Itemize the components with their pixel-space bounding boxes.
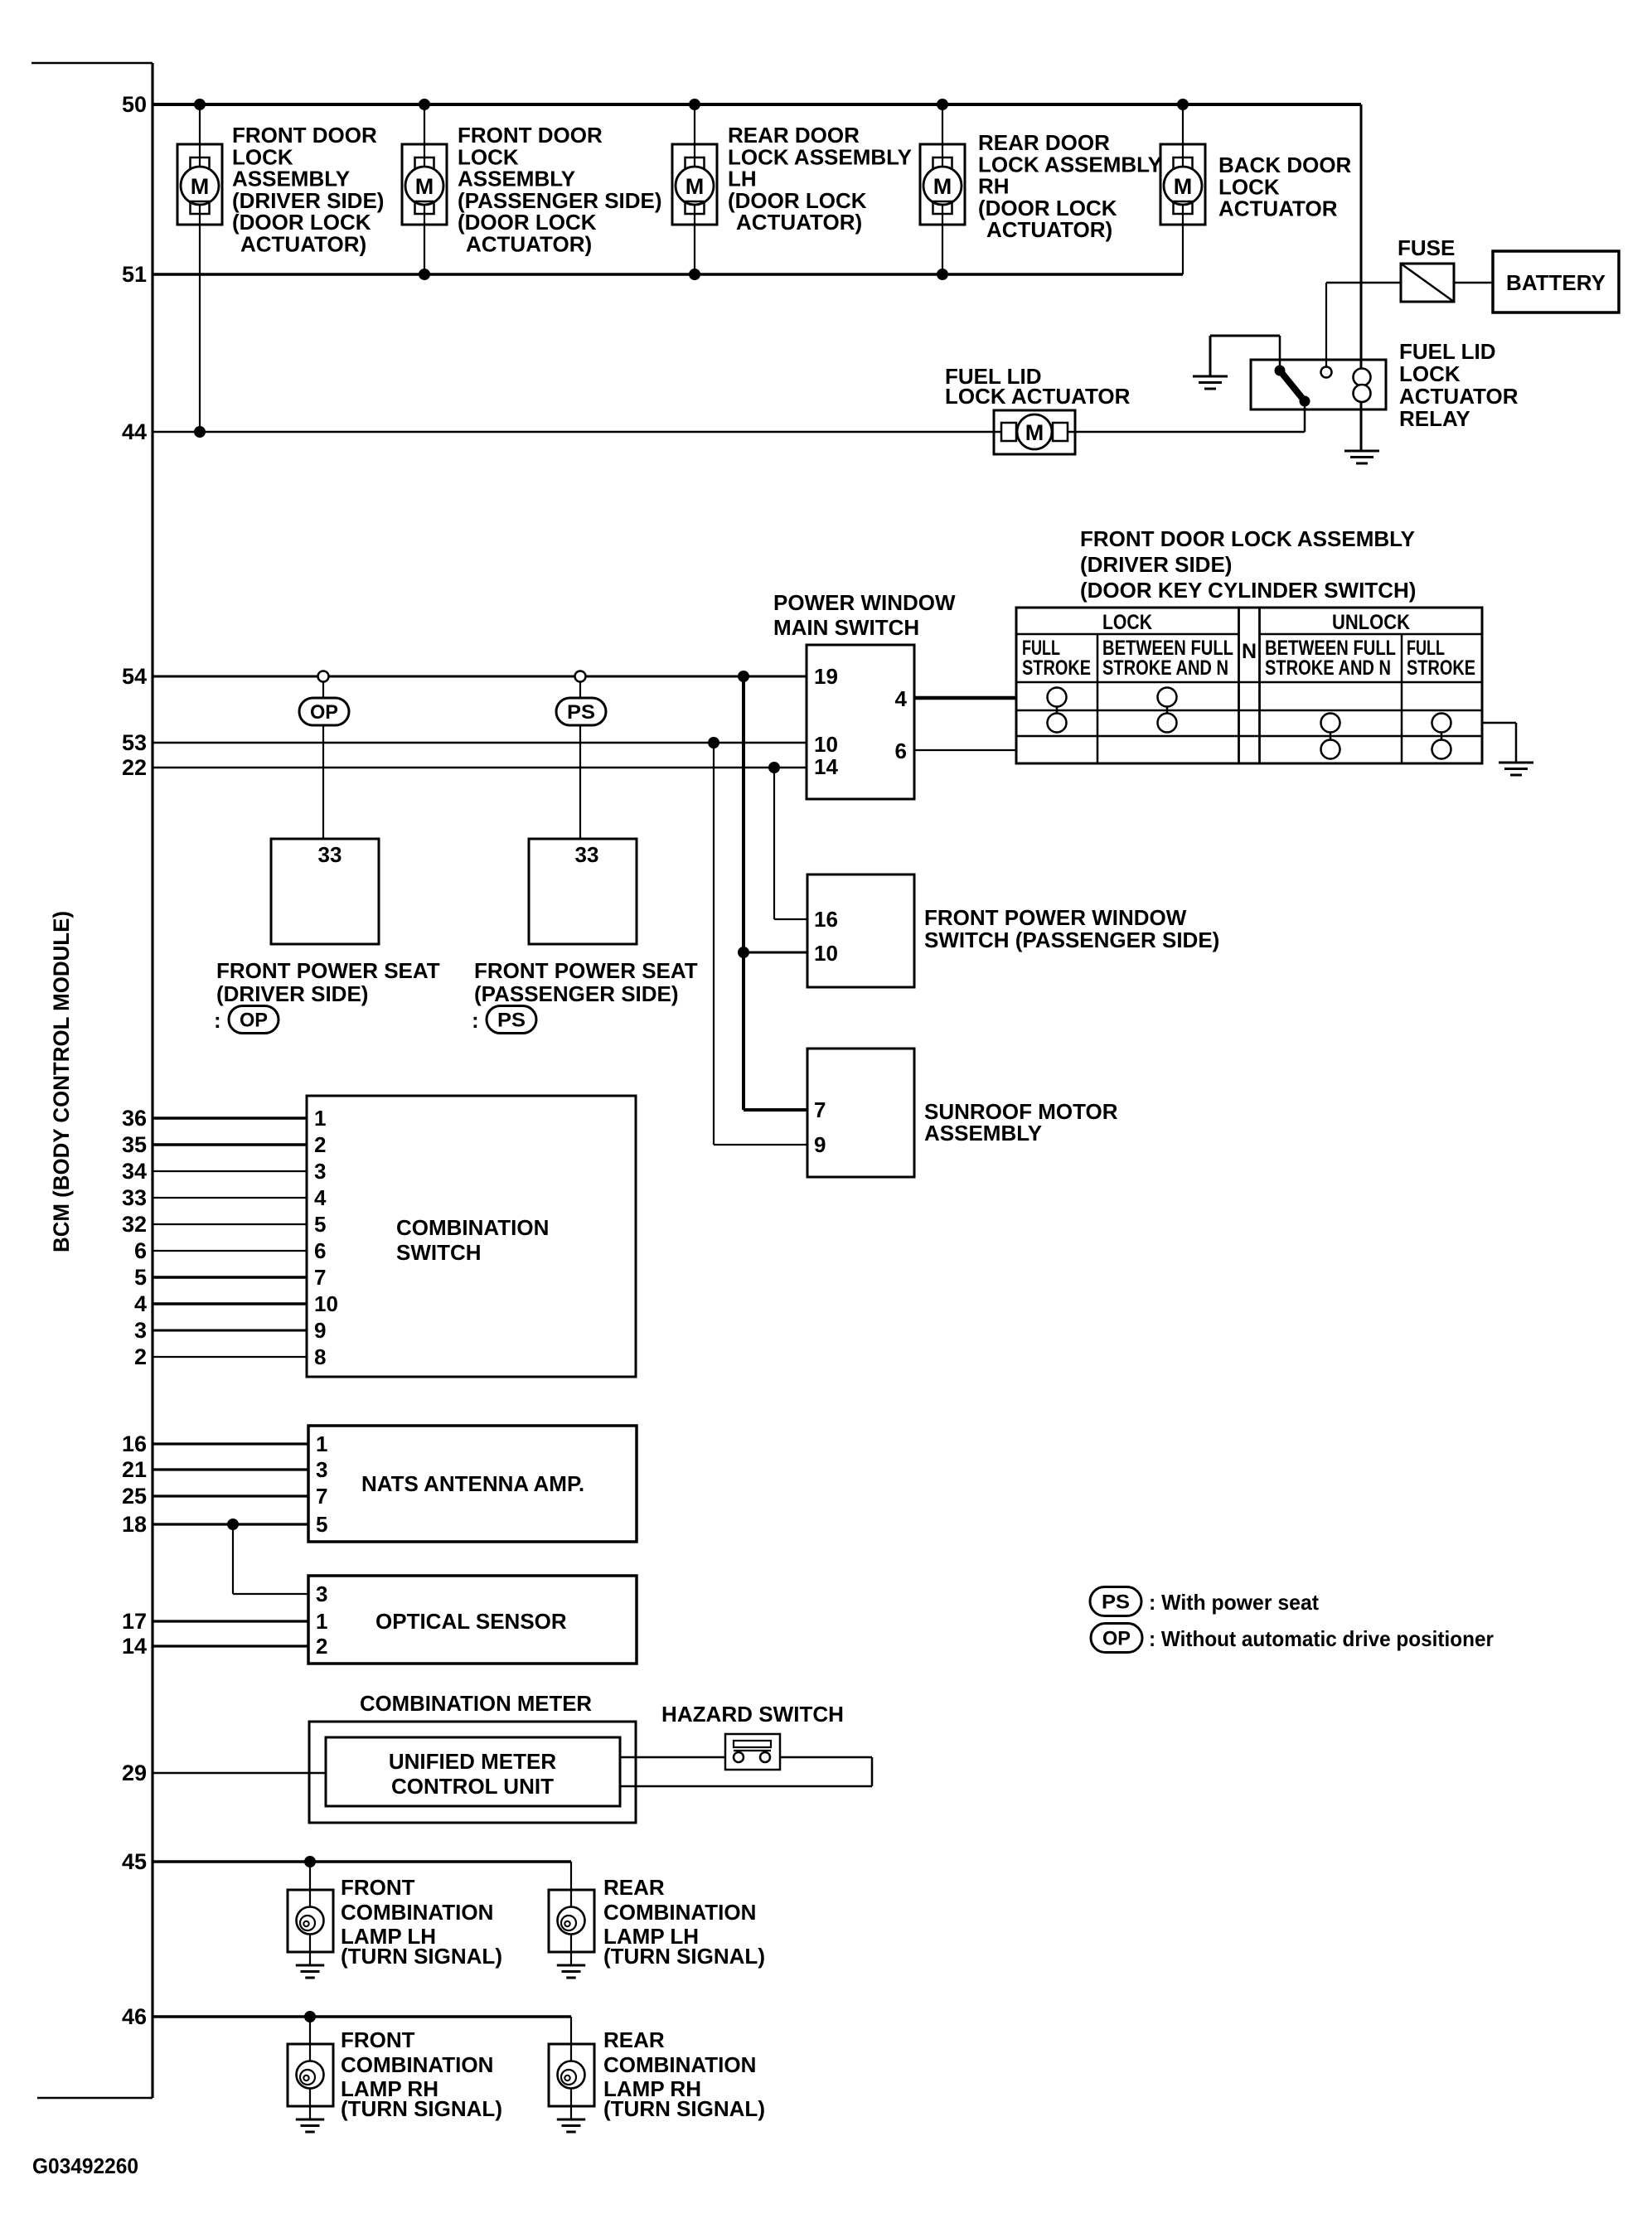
svg-text:COMBINATION: COMBINATION [603, 2052, 756, 2077]
BCM pin 32 label [122, 1212, 147, 1237]
svg-text:BCM (BODY CONTROL MODULE): BCM (BODY CONTROL MODULE) [49, 911, 74, 1252]
optical pin 3 label [316, 1582, 327, 1606]
svg-text:FRONT: FRONT [341, 1875, 415, 1900]
svg-text:OP: OP [1102, 1628, 1131, 1650]
svg-text:(DRIVER SIDE): (DRIVER SIDE) [216, 981, 368, 1006]
svg-text:9: 9 [314, 1318, 326, 1343]
svg-text:ACTUATOR): ACTUATOR) [986, 217, 1112, 242]
table header unlock full stroke [1407, 637, 1475, 680]
svg-text:SWITCH: SWITCH [396, 1240, 482, 1265]
wire net 45 [153, 1860, 571, 1863]
wire BCM 14 to optical sensor pin 2 [153, 1644, 308, 1647]
label sunroof motor assembly [924, 1099, 1118, 1146]
BCM pin 46 label [122, 2004, 147, 2029]
svg-text:6: 6 [314, 1238, 326, 1263]
wire rear door lock actuator LH drop [694, 104, 695, 274]
svg-text:46: 46 [122, 2004, 147, 2029]
svg-text:ACTUATOR): ACTUATOR) [736, 210, 862, 235]
wire BCM 3 to combination switch pin 9 [153, 1330, 307, 1332]
svg-text:17: 17 [122, 1609, 147, 1634]
BCM pin 53 label [122, 730, 147, 755]
wire battery trunk [1360, 104, 1363, 450]
bulb rear combination lamp LH [549, 1890, 594, 1964]
label rear door lock assembly RH [978, 130, 1162, 242]
battery [1493, 251, 1619, 312]
label rear door lock assembly LH [728, 123, 912, 235]
svg-text:(DRIVER SIDE): (DRIVER SIDE) [1080, 552, 1232, 577]
combination switch pin 5 label [314, 1212, 326, 1237]
junction node 45/front lamp LH [304, 1856, 316, 1867]
ground key cylinder switch [1499, 763, 1533, 775]
svg-text:FRONT POWER SEAT: FRONT POWER SEAT [216, 958, 440, 983]
BCM pin 44 label [122, 419, 147, 444]
svg-text:18: 18 [122, 1512, 147, 1537]
svg-text:LOCK ACTUATOR: LOCK ACTUATOR [945, 384, 1131, 409]
wire BCM 36 to combination switch pin 1 [153, 1116, 307, 1120]
table contact links lock [1057, 697, 1167, 723]
bulb front combination lamp RH [288, 2044, 333, 2119]
combination switch pin 8 label [314, 1344, 326, 1369]
svg-text:COMBINATION: COMBINATION [396, 1215, 549, 1240]
svg-text:4: 4 [895, 686, 908, 711]
optical pin 2 label [316, 1634, 327, 1659]
combination switch pin 1 label [314, 1106, 326, 1131]
svg-text:UNLOCK: UNLOCK [1332, 611, 1410, 634]
svg-text:ACTUATOR: ACTUATOR [1399, 384, 1519, 409]
legend text with power seat [1149, 1590, 1319, 1615]
BCM pin 6 label [134, 1238, 147, 1263]
svg-text:: With power seat: : With power seat [1149, 1590, 1319, 1615]
table contacts row unlock-full [1321, 740, 1451, 759]
svg-text:STROKE AND N: STROKE AND N [1265, 656, 1391, 680]
wire BCM 6 to combination switch pin 6 [153, 1250, 307, 1252]
svg-text:M: M [191, 174, 210, 199]
label front door lock assembly driver side [232, 123, 384, 257]
svg-text:(TURN SIGNAL): (TURN SIGNAL) [603, 2096, 765, 2121]
svg-text:HAZARD SWITCH: HAZARD SWITCH [661, 1702, 844, 1727]
label fuel lid lock actuator relay [1399, 339, 1519, 431]
wire BCM 25 to NATS [153, 1494, 308, 1497]
svg-text:FUEL LID: FUEL LID [1399, 339, 1496, 364]
svg-text:2: 2 [314, 1132, 326, 1157]
svg-text:10: 10 [314, 1291, 338, 1316]
wire trunk to sunroof pin 7 [744, 676, 807, 1110]
BCM pin 3 label [134, 1318, 147, 1343]
table contacts row lock-full [1048, 688, 1177, 707]
label front combination lamp RH [341, 2027, 502, 2121]
label front power seat driver side [216, 958, 440, 1006]
wire key cylinder switch to ground [1482, 723, 1516, 762]
front power seat passenger side box [529, 839, 637, 944]
svg-text:UNIFIED METER: UNIFIED METER [389, 1749, 556, 1774]
svg-text:PS: PS [1102, 1591, 1130, 1614]
svg-text:NATS ANTENNA AMP.: NATS ANTENNA AMP. [361, 1471, 584, 1496]
junction node 46/front lamp RH [304, 2011, 316, 2022]
wire main switch pin 4 to key cylinder table [914, 696, 1016, 700]
junction node 51/passenger actuator [419, 269, 430, 280]
label combination meter [360, 1691, 592, 1716]
label hazard switch [661, 1702, 844, 1727]
svg-text:(TURN SIGNAL): (TURN SIGNAL) [603, 1944, 765, 1969]
ground front combination lamp RH [296, 2119, 324, 2132]
svg-text:FUSE: FUSE [1398, 235, 1455, 260]
svg-text:35: 35 [122, 1132, 147, 1157]
wire fuse to relay coil terminal [1326, 283, 1401, 367]
svg-text:3: 3 [134, 1318, 147, 1343]
svg-text:OP: OP [310, 701, 338, 724]
sunroof motor assembly box [807, 1049, 914, 1177]
junction node trunk/front power window switch pin 10 [738, 947, 749, 958]
table header unlock between [1265, 637, 1396, 680]
BCM pin 51 label [122, 262, 147, 287]
ground relay switch [1193, 376, 1228, 389]
sunroof pin 9 label [814, 1132, 826, 1157]
svg-text:5: 5 [314, 1212, 326, 1237]
svg-text:10: 10 [814, 941, 838, 966]
wire net 50 (door lock power) [153, 103, 1361, 106]
svg-text:3: 3 [316, 1582, 327, 1606]
svg-text:50: 50 [122, 92, 147, 117]
relay coil input terminal [1321, 367, 1332, 378]
label combination switch [396, 1215, 549, 1265]
wire front door lock actuator passenger drop [424, 104, 425, 274]
BCM pin 16 label [122, 1431, 147, 1456]
wire hazard switch return loop [620, 1757, 872, 1786]
svg-text:32: 32 [122, 1212, 147, 1237]
svg-text:OPTICAL SENSOR: OPTICAL SENSOR [375, 1609, 567, 1634]
junction node 18/optical sensor [227, 1519, 239, 1530]
svg-text:: Without automatic drive posi: : Without automatic drive positioner [1149, 1626, 1494, 1651]
svg-text:5: 5 [134, 1265, 147, 1290]
svg-text:4: 4 [314, 1185, 327, 1210]
wire BCM 21 to NATS [153, 1468, 308, 1470]
fuse F1 [1401, 264, 1454, 302]
wire net 51 (door lock return) [153, 273, 1183, 276]
BCM pin 36 label [122, 1106, 147, 1131]
BCM pin 22 label [122, 755, 147, 780]
front power seat driver side box [271, 839, 379, 944]
combination switch pin 7 label [314, 1265, 326, 1290]
connector node PS on net 54 [575, 671, 586, 682]
junction node 50/rear RH actuator [937, 99, 948, 110]
BCM pin 5 label [134, 1265, 147, 1290]
junction node 50/passenger actuator [419, 99, 430, 110]
optical pin 1 label [316, 1609, 327, 1634]
wire drop front combination lamp RH [309, 2017, 311, 2044]
fuel lid lock actuator relay box [1251, 360, 1386, 409]
label unified meter control unit [389, 1749, 556, 1799]
svg-text:LOCK: LOCK [1399, 361, 1461, 386]
label back door lock actuator [1218, 153, 1352, 221]
table contact links unlock [1330, 723, 1441, 749]
svg-text:PS: PS [567, 701, 595, 724]
ground relay coil [1344, 451, 1379, 463]
svg-text:3: 3 [316, 1457, 327, 1482]
svg-text:10: 10 [814, 732, 838, 757]
wire net 53 to sunroof pin 9 [714, 743, 807, 1145]
svg-text:25: 25 [122, 1484, 147, 1509]
svg-text:FRONT: FRONT [341, 2027, 415, 2052]
svg-text:33: 33 [575, 842, 599, 867]
combination switch box [307, 1096, 636, 1377]
svg-text:1: 1 [316, 1431, 327, 1456]
svg-text:M: M [1174, 174, 1193, 199]
svg-text:33: 33 [318, 842, 342, 867]
svg-text::: : [472, 1008, 479, 1033]
svg-text:1: 1 [314, 1106, 326, 1131]
svg-text:2: 2 [316, 1634, 327, 1659]
svg-text:54: 54 [122, 664, 147, 689]
svg-text:22: 22 [122, 755, 147, 780]
wire BCM 2 to combination switch pin 8 [153, 1356, 307, 1358]
svg-text:(PASSENGER SIDE): (PASSENGER SIDE) [474, 981, 679, 1006]
wire net 53 [153, 742, 807, 744]
pin 4 label [895, 686, 908, 711]
wire net 54 [153, 676, 807, 678]
wire front door lock actuator driver drop [199, 104, 201, 432]
table header lock full stroke [1022, 637, 1091, 680]
wire BCM 18 to NATS [153, 1523, 308, 1525]
svg-text:POWER WINDOW: POWER WINDOW [773, 590, 956, 615]
unified meter control unit box [326, 1737, 620, 1806]
BCM pin 34 label [122, 1159, 147, 1184]
table header N [1242, 640, 1257, 663]
wire front power window switch pin 10 stub [744, 952, 807, 954]
NATS pin 7 label [316, 1484, 327, 1509]
wire BCM 33 to combination switch pin 4 [153, 1197, 307, 1199]
svg-text:7: 7 [814, 1097, 826, 1122]
sunroof pin 7 label [814, 1097, 826, 1122]
svg-text:G03492260: G03492260 [32, 2153, 138, 2178]
svg-text:16: 16 [814, 907, 838, 932]
table header UNLOCK [1332, 611, 1410, 634]
wire main switch pin 6 to key cylinder table [914, 749, 1016, 751]
svg-text:RELAY: RELAY [1399, 406, 1470, 431]
wire PS power seat drop [579, 676, 581, 839]
label rear combination lamp RH [603, 2027, 765, 2121]
wire relay switch to ground [1210, 336, 1280, 375]
svg-text:COMBINATION: COMBINATION [341, 2052, 493, 2077]
svg-text:ACTUATOR): ACTUATOR) [240, 232, 366, 257]
motor M front door lock actuator driver side [177, 144, 222, 225]
svg-text:51: 51 [122, 262, 147, 287]
svg-text:BATTERY: BATTERY [1506, 270, 1606, 295]
BCM pin 33 label [122, 1185, 147, 1210]
svg-text:6: 6 [134, 1238, 147, 1263]
power window main switch box [807, 645, 914, 799]
ground front combination lamp LH [296, 1965, 324, 1978]
BCM pin 54 label [122, 664, 147, 689]
bulb front combination lamp LH [288, 1890, 333, 1964]
svg-text:45: 45 [122, 1849, 147, 1874]
svg-text:M: M [415, 174, 434, 199]
wire BCM 16 to NATS [153, 1442, 308, 1445]
svg-text:34: 34 [122, 1159, 147, 1184]
wire BCM 17 to optical sensor pin 1 [153, 1620, 308, 1622]
BCM pin 25 label [122, 1484, 147, 1509]
legend tag OP under driver seat [214, 1006, 279, 1034]
combination switch pin 3 label [314, 1159, 326, 1184]
svg-text:2: 2 [134, 1344, 147, 1369]
BCM pin 4 label [134, 1291, 147, 1316]
svg-text:7: 7 [316, 1484, 327, 1509]
door key cylinder switch table grid [1016, 608, 1482, 763]
svg-text:16: 16 [122, 1431, 147, 1456]
junction node 22/fpw16 [768, 762, 780, 773]
svg-text:M: M [933, 174, 952, 199]
label front power window switch [924, 905, 1219, 952]
svg-text:14: 14 [814, 754, 838, 779]
svg-text:COMBINATION: COMBINATION [603, 1900, 756, 1925]
NATS pin 5 label [316, 1512, 327, 1537]
pin 6 label [895, 739, 907, 763]
junction node 44/driver actuator [194, 426, 206, 438]
junction node 51/rear LH actuator [689, 269, 700, 280]
svg-text:MAIN SWITCH: MAIN SWITCH [773, 615, 919, 640]
svg-text:PS: PS [497, 1010, 526, 1032]
motor M rear door lock actuator LH [672, 144, 717, 225]
optical sensor box [308, 1576, 637, 1664]
svg-text:(TURN SIGNAL): (TURN SIGNAL) [341, 1944, 502, 1969]
svg-text:COMBINATION: COMBINATION [341, 1900, 493, 1925]
svg-text:14: 14 [122, 1634, 147, 1659]
svg-text:M: M [686, 174, 705, 199]
wire BCM 5 to combination switch pin 7 [153, 1276, 307, 1279]
wire BCM 35 to combination switch pin 2 [153, 1143, 307, 1146]
table header LOCK [1102, 611, 1152, 634]
svg-text:COMBINATION METER: COMBINATION METER [360, 1691, 592, 1716]
wire net 22 [153, 767, 807, 769]
wire rear door lock actuator RH drop [942, 104, 943, 274]
svg-text:33: 33 [122, 1185, 147, 1210]
svg-text:44: 44 [122, 419, 147, 444]
svg-text:STROKE: STROKE [1022, 656, 1091, 680]
legend tag OP [1091, 1624, 1142, 1653]
svg-text:STROKE: STROKE [1407, 656, 1475, 680]
motor M rear door lock actuator RH [920, 144, 965, 225]
wire net 46 [153, 2015, 571, 2018]
pin 10 label [814, 732, 838, 757]
junction node 53/sunroof [708, 737, 719, 748]
svg-text:FRONT DOOR LOCK ASSEMBLY: FRONT DOOR LOCK ASSEMBLY [1080, 526, 1415, 551]
motor M fuel lid lock actuator [994, 410, 1075, 454]
svg-text:FRONT POWER SEAT: FRONT POWER SEAT [474, 958, 698, 983]
option tag OP [299, 698, 349, 725]
motor M back door lock actuator [1160, 144, 1205, 225]
junction node 50/driver actuator [194, 99, 206, 110]
BCM pin 14 label [122, 1634, 147, 1659]
svg-text:(DOOR KEY CYLINDER SWITCH): (DOOR KEY CYLINDER SWITCH) [1080, 578, 1416, 603]
junction node 50/rear LH actuator [689, 99, 700, 110]
svg-text::: : [214, 1008, 221, 1033]
svg-text:REAR: REAR [603, 1875, 665, 1900]
wire drop front combination lamp LH [309, 1862, 311, 1890]
wire BCM 34 to combination switch pin 3 [153, 1170, 307, 1172]
label rear combination lamp LH [603, 1875, 765, 1969]
table contacts row neutral [1048, 714, 1451, 733]
label fuel lid lock actuator [945, 364, 1131, 409]
label NATS antenna amp [361, 1471, 584, 1496]
option tag PS [556, 698, 606, 725]
svg-text:FRONT POWER WINDOW: FRONT POWER WINDOW [924, 905, 1187, 930]
svg-text:REAR: REAR [603, 2027, 665, 2052]
svg-text:ACTUATOR: ACTUATOR [1218, 196, 1338, 221]
wire BCM 32 to combination switch pin 5 [153, 1223, 307, 1225]
pin 19 label [814, 664, 838, 689]
svg-text:7: 7 [314, 1265, 326, 1290]
junction node 54/trunk [738, 671, 749, 682]
bulb rear combination lamp RH [549, 2044, 594, 2119]
svg-text:OP: OP [240, 1010, 268, 1032]
relay switch arm [1275, 336, 1310, 432]
svg-text:29: 29 [122, 1761, 147, 1785]
BCM pin 18 label [122, 1512, 147, 1537]
combination meter outer box [309, 1722, 636, 1823]
svg-text:(TURN SIGNAL): (TURN SIGNAL) [341, 2096, 502, 2121]
BCM pin 50 label [122, 92, 147, 117]
label front door lock assembly passenger side [458, 123, 662, 257]
combination switch pin 9 label [314, 1318, 326, 1343]
wire BCM 29 to unified meter control unit [153, 1772, 326, 1775]
svg-text:21: 21 [122, 1457, 147, 1482]
legend tag PS under passenger seat [472, 1006, 536, 1034]
BCM pin 21 label [122, 1457, 147, 1482]
svg-text:8: 8 [314, 1344, 326, 1369]
wire back door lock actuator drop [1182, 104, 1184, 274]
svg-text:CONTROL UNIT: CONTROL UNIT [391, 1774, 554, 1799]
wire drop rear combination lamp LH [570, 1862, 572, 1890]
BCM label [49, 911, 74, 1252]
svg-text:LOCK: LOCK [1102, 611, 1152, 634]
BCM pin 35 label [122, 1132, 147, 1157]
wire drop rear combination lamp RH [570, 2017, 572, 2044]
label front combination lamp LH [341, 1875, 502, 1969]
table header lock between [1102, 637, 1233, 680]
wire net 44 (fuel lid actuator) [153, 431, 1305, 434]
svg-text:3: 3 [314, 1159, 326, 1184]
fpw pin 10 label [814, 941, 838, 966]
connector node OP on net 54 [318, 671, 329, 682]
wire fuse to battery [1454, 282, 1493, 284]
svg-text:STROKE AND N: STROKE AND N [1102, 656, 1228, 680]
svg-text:ACTUATOR): ACTUATOR) [466, 232, 592, 257]
BCM pin 45 label [122, 1849, 147, 1874]
relay coil [1354, 369, 1371, 403]
fpw pin 16 label [814, 907, 838, 932]
combination switch pin 4 label [314, 1185, 327, 1210]
hazard switch box [725, 1734, 780, 1770]
label power window main switch [773, 590, 956, 640]
wire OP power seat drop [322, 676, 324, 839]
wire net 18 to optical sensor pin 3 [233, 1524, 308, 1594]
pin 14 label [814, 754, 838, 779]
svg-text:5: 5 [316, 1512, 327, 1537]
legend tag PS [1090, 1587, 1141, 1616]
svg-text:SWITCH (PASSENGER SIDE): SWITCH (PASSENGER SIDE) [924, 928, 1219, 952]
svg-text:36: 36 [122, 1106, 147, 1131]
front power window switch box [807, 874, 914, 987]
wire net 22 to front power window switch pin 16 [774, 768, 807, 919]
label front power seat passenger side [474, 958, 698, 1006]
svg-text:19: 19 [814, 664, 838, 689]
NATS pin 1 label [316, 1431, 327, 1456]
ground rear combination lamp LH [557, 1965, 585, 1978]
BCM pin 17 label [122, 1609, 147, 1634]
label FUSE [1398, 235, 1455, 260]
junction node 50/back door actuator [1177, 99, 1189, 110]
svg-text:9: 9 [814, 1132, 826, 1157]
legend text without ADP [1149, 1626, 1494, 1651]
